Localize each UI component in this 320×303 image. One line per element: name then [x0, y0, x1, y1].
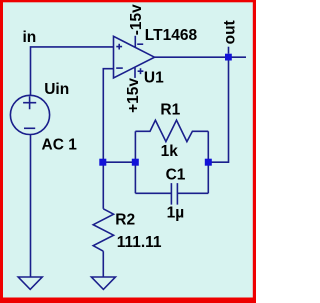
svg-text:-15v: -15v: [128, 4, 145, 35]
border frame bottom: [0, 298, 256, 303]
junction node inverting input: [99, 159, 106, 166]
wire node to out branch: [208, 57, 228, 162]
border frame right: [253, 0, 256, 303]
wire out label stub: [228, 47, 230, 54]
svg-text:LT1468: LT1468: [145, 27, 198, 44]
source minus mark: [24, 127, 35, 129]
svg-text:111.11: 111.11: [117, 234, 162, 251]
wire node down to R2: [102, 162, 104, 209]
wire op-amp output: [155, 56, 247, 58]
border frame top: [0, 0, 256, 2]
op-amp noninverting + mark: [116, 44, 122, 50]
wire op-amp bottom supply: [134, 68, 136, 78]
wire feedback right branch vertical: [207, 131, 209, 193]
svg-text:+15v: +15v: [125, 78, 142, 113]
svg-text:AC 1: AC 1: [42, 137, 78, 154]
svg-text:C1: C1: [166, 166, 186, 183]
junction node out: [225, 54, 232, 61]
svg-text:R2: R2: [115, 212, 135, 229]
border frame left: [0, 0, 3, 303]
source plus mark: [23, 96, 36, 109]
wire in to op-amp + input: [31, 47, 114, 96]
op-amp U1 triangle: [114, 36, 155, 78]
op-amp inverting - mark: [116, 67, 123, 69]
wire op-amp inverting input down to node: [103, 69, 113, 163]
ground under source: [18, 277, 42, 289]
resistor R1: [135, 120, 208, 141]
resistor R2: [93, 209, 113, 251]
svg-text:out: out: [222, 20, 239, 44]
junction node feedback right: [205, 159, 212, 166]
ground under R2: [91, 277, 115, 289]
svg-text:Uin: Uin: [44, 81, 69, 98]
wire node to feedback left branch: [103, 161, 135, 163]
wire R2 to ground: [102, 251, 104, 277]
wire feedback left branch vertical: [134, 131, 136, 193]
svg-text:R1: R1: [160, 102, 180, 119]
op-amp top supply - mark: [137, 43, 143, 45]
junction node feedback left: [132, 159, 139, 166]
svg-text:1µ: 1µ: [167, 205, 185, 222]
wire op-amp top supply: [134, 36, 136, 47]
op-amp bottom supply + mark: [138, 68, 144, 74]
capacitor C1: [135, 183, 208, 205]
wire source bottom to ground: [30, 134, 32, 277]
svg-text:1k: 1k: [161, 143, 179, 160]
voltage source AC1 circle: [10, 95, 49, 134]
svg-text:U1: U1: [144, 70, 164, 87]
svg-text:in: in: [23, 29, 37, 46]
